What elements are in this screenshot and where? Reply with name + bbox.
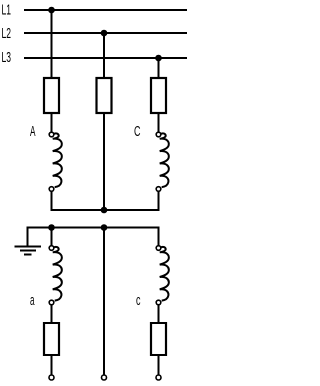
- bus line L2: [24, 32, 187, 34]
- wire: middle secondary lead to terminal: [103, 228, 105, 375]
- bus line L1: [24, 9, 187, 11]
- svg-text:a: a: [30, 292, 35, 309]
- junction dot on L2 at middle tap: [101, 30, 108, 37]
- wire: fuse F2 down to primary common node: [103, 113, 105, 211]
- fuse F1 (phase A primary): [44, 78, 59, 113]
- primary winding C: [156, 132, 169, 191]
- wire: secondary common down to winding a: [51, 228, 53, 246]
- terminal circle a: [49, 375, 54, 380]
- secondary winding c: [156, 246, 169, 305]
- svg-text:C: C: [134, 123, 141, 140]
- wire: fuse F4 to terminal: [51, 355, 53, 375]
- svg-text:L3: L3: [2, 49, 12, 66]
- junction dot primary common at middle: [101, 207, 108, 214]
- svg-text:A: A: [30, 123, 36, 140]
- wire: winding c to fuse F5: [158, 305, 160, 323]
- wire: winding A bottom down and right (primary common): [52, 192, 159, 211]
- junction dot on L3 at phase C tap: [155, 55, 162, 62]
- wire: L3 tap down to fuse F3: [158, 58, 160, 78]
- junction dot on L1 at phase A tap: [48, 7, 55, 14]
- junction dot secondary common at middle: [101, 224, 108, 231]
- fuse F5 (secondary c): [151, 323, 166, 355]
- svg-text:L2: L2: [2, 25, 12, 42]
- fuse F2 (middle): [97, 78, 112, 113]
- wire: fuse F1 to winding A terminal: [51, 113, 53, 132]
- svg-text:c: c: [136, 292, 141, 309]
- wire: fuse F3 to winding C terminal: [158, 113, 160, 132]
- svg-text:L1: L1: [2, 2, 12, 19]
- primary winding A: [49, 132, 62, 191]
- bus line L3: [24, 57, 187, 59]
- secondary winding a: [49, 246, 62, 305]
- wire: L1 tap down to fuse F1: [51, 10, 53, 78]
- fuse F4 (secondary a): [44, 323, 59, 355]
- fuse F3 (phase C primary): [151, 78, 166, 113]
- wire: fuse F5 to terminal: [158, 355, 160, 375]
- ground symbol: [15, 247, 42, 255]
- junction dot secondary common at a: [48, 224, 55, 231]
- secondary common wire with ground: [28, 228, 159, 247]
- terminal circle c: [156, 375, 161, 380]
- wire: winding a to fuse F4: [51, 305, 53, 323]
- terminal circle middle: [102, 375, 107, 380]
- wire: L2 tap down to fuse F2: [103, 33, 105, 78]
